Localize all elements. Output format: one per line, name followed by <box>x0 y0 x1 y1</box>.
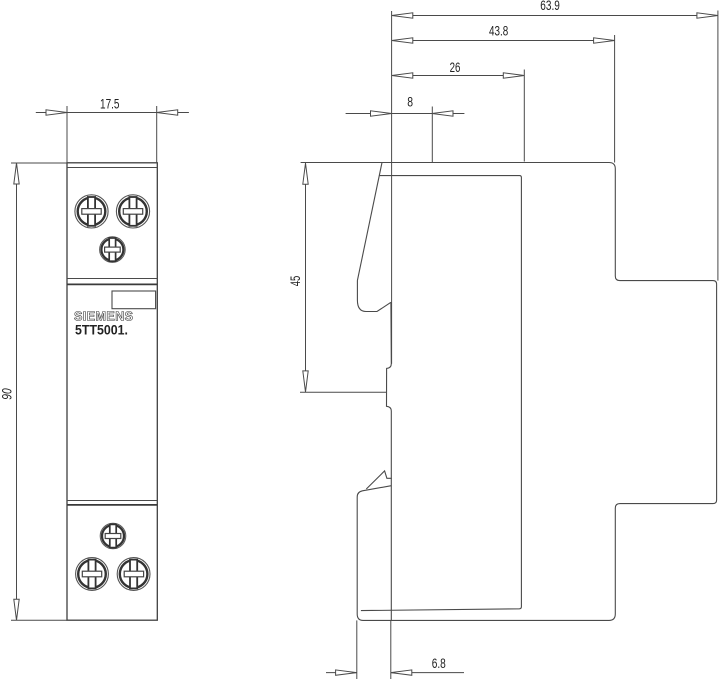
front view inner top line <box>67 167 157 169</box>
dim 6.8 arrow right (pointing left) <box>391 670 412 675</box>
front face upper segment <box>366 302 391 489</box>
side view outer profile <box>363 163 717 621</box>
dim 26 arrow left <box>392 73 413 78</box>
dim 8 line middle segment <box>392 113 433 115</box>
dim 45 line <box>305 163 307 392</box>
inner body rectangle <box>361 176 522 611</box>
dim 17.5 arrow right <box>157 110 178 115</box>
label window rectangle <box>112 291 156 309</box>
dim 17.5 extension line left <box>66 106 68 163</box>
dim 63.9 arrow left <box>392 13 413 18</box>
dim 17.5 arrow left <box>46 110 67 115</box>
dim 8 arrow right (outside, pointing left) <box>432 111 453 116</box>
dim 8 line right tail <box>432 113 464 115</box>
dim 63.9 extension line right <box>717 11 719 281</box>
screw terminal bottom-middle small <box>100 523 126 549</box>
dim 8 extension line right <box>431 107 433 163</box>
dim 43.8 line <box>392 40 615 42</box>
dim 90 top extension line <box>11 162 67 164</box>
dim 45 top extension line <box>301 162 382 164</box>
svg-text:90: 90 <box>0 388 15 399</box>
dim 8 arrow left (outside, pointing right) <box>371 111 392 116</box>
dim 8 line left tail <box>346 113 392 115</box>
upper DIN hook <box>357 281 391 312</box>
screw terminal top-right <box>116 195 149 228</box>
screw terminal top-left <box>75 195 108 228</box>
dim 43.8 extension line right <box>614 35 616 163</box>
dim 90 arrow down <box>14 599 19 620</box>
dim 45 arrow up <box>303 163 308 184</box>
lower terminal separator thin line <box>67 500 157 502</box>
clip tab below device right edge <box>390 620 392 679</box>
dim 6.8 line right tail <box>391 672 464 674</box>
front view outline <box>67 163 157 620</box>
dim 63.9 arrow right <box>697 13 718 18</box>
svg-text:43.8: 43.8 <box>489 23 508 39</box>
dim 90 arrow up <box>14 163 19 184</box>
dim 26 arrow right <box>503 73 524 78</box>
dim 63.9 extension line left (long, through views) <box>391 11 393 364</box>
dim 6.8 line left tail <box>326 672 357 674</box>
dim 17.5 line <box>36 112 189 114</box>
screw terminal bottom-left <box>76 558 109 591</box>
clip tab below device left edge <box>356 620 358 679</box>
dim 43.8 arrow right <box>594 38 615 43</box>
svg-text:63.9: 63.9 <box>540 0 560 13</box>
dim 43.8 arrow left <box>392 38 413 43</box>
svg-text:26: 26 <box>450 59 461 75</box>
svg-text:8: 8 <box>407 94 413 110</box>
lower terminal separator thick line <box>67 504 157 506</box>
front face lower segment <box>390 478 392 620</box>
clip tab (top edge + left edge) <box>357 486 391 621</box>
upper terminal separator thick line <box>67 283 157 285</box>
dim 90 line <box>16 163 18 620</box>
svg-text:45: 45 <box>287 276 303 287</box>
dim 90 bottom extension line <box>11 619 67 621</box>
screw terminal bottom-right <box>117 558 150 591</box>
dim 26 line <box>392 75 525 77</box>
upper terminal separator thin line <box>67 278 157 280</box>
svg-text:6.8: 6.8 <box>432 655 446 671</box>
dim 17.5 extension line right <box>156 106 158 163</box>
dim 63.9 line <box>392 15 718 17</box>
dim 45 arrow down <box>303 371 308 392</box>
svg-text:17.5: 17.5 <box>100 95 120 111</box>
dim 45 bottom extension line <box>300 391 387 393</box>
screw terminal top-middle small <box>100 237 126 263</box>
side view front slant edge <box>357 163 382 281</box>
dim 26 extension line right <box>523 70 525 162</box>
svg-text:5TT5001.: 5TT5001. <box>75 322 128 337</box>
dim 6.8 arrow left (pointing right) <box>336 670 357 675</box>
